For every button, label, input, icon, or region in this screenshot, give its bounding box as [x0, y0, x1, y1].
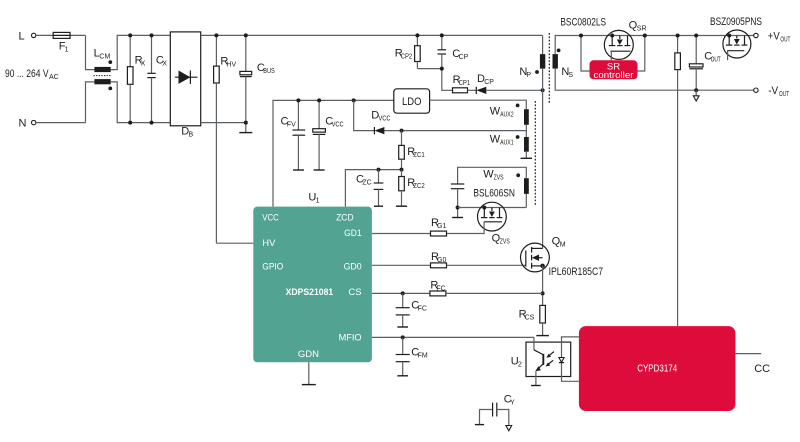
svg-text:M: M	[560, 242, 566, 249]
svg-text:CS: CS	[525, 315, 535, 322]
node L input label	[19, 31, 25, 43]
IC U1 XDPS21081 box	[253, 207, 372, 363]
svg-text:ZC1: ZC1	[413, 152, 425, 159]
svg-text:GD1: GD1	[344, 228, 362, 239]
node dot DVCC branch	[352, 98, 356, 102]
svg-text:1: 1	[65, 46, 69, 53]
svg-text:N: N	[19, 118, 27, 130]
wire choke bottom right to bottom rail	[111, 82, 171, 123]
svg-text:FC: FC	[418, 305, 427, 312]
secondary top rail	[555, 36, 753, 55]
resistor RCS	[519, 305, 549, 335]
capacitor CX	[147, 35, 167, 122]
choke dot top	[108, 60, 112, 64]
bridge rectifier DB box	[170, 32, 200, 126]
wire L terminal to choke	[36, 35, 94, 69]
svg-text:L: L	[19, 31, 25, 43]
secondary bottom rail -Vout	[555, 69, 753, 91]
ZVS loop wire bottom	[458, 194, 527, 208]
optocoupler U2 box	[511, 342, 571, 376]
resistor RZC2	[396, 170, 425, 207]
svg-text:ZC: ZC	[362, 179, 371, 186]
label BSZ0905PNS	[710, 16, 762, 28]
svg-text:W: W	[490, 106, 501, 118]
opto LED	[559, 342, 564, 376]
choke LCM label	[94, 48, 111, 61]
svg-text:ZC2: ZC2	[413, 183, 425, 190]
svg-text:VCC: VCC	[379, 116, 391, 123]
node dot CCP top	[440, 33, 444, 37]
svg-text:CM: CM	[99, 54, 110, 61]
svg-text:SR: SR	[637, 26, 647, 33]
svg-text:90 ... 264 V: 90 ... 264 V	[5, 68, 49, 80]
capacitor CFM	[396, 335, 428, 375]
ground bar primary bus	[239, 132, 252, 134]
svg-text:VCC: VCC	[332, 121, 344, 128]
node dot RHV top	[214, 33, 218, 37]
node dot CBUS bottom	[244, 121, 248, 125]
choke core dashed	[94, 75, 112, 77]
wire clamp lower node	[417, 69, 452, 91]
wire LDO to WAUX2	[430, 100, 527, 109]
svg-text:OUT: OUT	[780, 36, 790, 43]
node dot rail RX bottom	[128, 121, 132, 125]
diode DVCC	[354, 100, 527, 134]
BSZ gate stub	[727, 51, 729, 61]
label BSC0802LS	[560, 17, 606, 29]
opto LED wires to CYPD	[562, 337, 579, 381]
transistor QM	[521, 236, 604, 278]
choke LCM top winding	[94, 67, 110, 72]
aux winding WAUX2	[490, 106, 529, 125]
node dot RZC2 top	[400, 168, 404, 172]
WAUX2 polarity dot	[516, 104, 520, 108]
svg-text:B: B	[189, 131, 194, 138]
wire N terminal to choke	[36, 82, 94, 123]
svg-text:1: 1	[316, 198, 320, 205]
svg-text:VCC: VCC	[262, 212, 279, 223]
node dot rail CX bottom	[150, 121, 154, 125]
capacitor CY	[475, 394, 515, 431]
opto light arrows	[546, 352, 555, 367]
resistor RCP1	[453, 74, 477, 93]
label 90...264 VAC	[5, 68, 59, 81]
svg-text:BSC0802LS: BSC0802LS	[560, 17, 606, 29]
svg-text:GPIO: GPIO	[262, 262, 283, 273]
NP polarity dot	[535, 70, 539, 74]
svg-text:FV: FV	[287, 121, 296, 128]
svg-text:AUX1: AUX1	[500, 139, 514, 146]
resistor RHV	[214, 35, 237, 243]
svg-text:2: 2	[518, 362, 522, 369]
svg-text:XDPS21081: XDPS21081	[286, 287, 334, 298]
svg-text:FC: FC	[436, 285, 445, 292]
capacitor CZC	[356, 170, 383, 207]
svg-text:CYPD3174: CYPD3174	[637, 364, 677, 375]
node dot ZVS cap	[456, 206, 460, 210]
terminal -Vout	[754, 85, 790, 98]
opto phototransistor	[531, 337, 543, 385]
svg-text:MFIO: MFIO	[339, 333, 362, 344]
SR controller right wire	[638, 36, 645, 72]
node dot CBUS top	[244, 33, 248, 37]
svg-text:Y: Y	[510, 400, 515, 407]
svg-text:GDN: GDN	[298, 349, 319, 360]
svg-text:HV: HV	[226, 62, 236, 69]
SR controller box	[590, 60, 638, 81]
node dot clamp	[440, 67, 444, 71]
svg-text:FM: FM	[418, 353, 428, 360]
svg-text:G0: G0	[437, 257, 446, 264]
svg-text:ZVS: ZVS	[494, 175, 504, 182]
node dot load resistor top	[676, 34, 680, 38]
svg-text:ZVS: ZVS	[500, 238, 510, 245]
svg-text:S: S	[568, 72, 573, 79]
terminal N	[32, 120, 36, 124]
transformer secondary winding NS	[553, 54, 574, 79]
NS polarity dot	[557, 49, 561, 53]
node dot rail RX top	[128, 33, 132, 37]
WAUX1 bottom termination	[521, 152, 532, 159]
svg-text:OUT: OUT	[779, 91, 789, 98]
choke LCM bottom winding	[94, 79, 110, 84]
wire WAUX2 to WAUX1	[525, 125, 527, 137]
CYPD3174 box	[579, 326, 736, 411]
node dot RCP2 top	[415, 33, 419, 37]
node dot CVCC	[317, 98, 321, 102]
svg-text:CP: CP	[484, 79, 494, 86]
aux winding WAUX1	[490, 133, 529, 151]
resistor RZC1	[399, 131, 425, 170]
resistor RCP2	[395, 35, 421, 68]
svg-text:X: X	[141, 61, 146, 68]
node dot SR left	[579, 34, 583, 38]
label BSL606SN	[473, 188, 515, 200]
node dot SR right	[643, 34, 647, 38]
aux winding WZVS	[483, 169, 529, 194]
choke dot bottom	[108, 87, 112, 91]
svg-text:OUT: OUT	[711, 56, 721, 63]
resistor RG0	[372, 251, 526, 268]
svg-text:ZCD: ZCD	[336, 212, 354, 223]
wire primary NP bottom to QM drain	[542, 69, 544, 249]
ZVS cap ground	[452, 208, 463, 218]
bridge diode symbol	[175, 71, 198, 84]
wire ZCD node	[345, 170, 401, 207]
QZVS gate wire	[447, 222, 485, 234]
secondary ground triangle	[693, 90, 699, 101]
node dot CFV	[296, 98, 300, 102]
svg-text:LDO: LDO	[402, 96, 422, 108]
terminal +Vout	[754, 30, 791, 43]
CC pin wire	[735, 354, 770, 376]
capacitor CVCC	[313, 100, 344, 170]
capacitor CCP	[438, 35, 469, 68]
capacitor CFV	[281, 100, 306, 170]
transistor QSR	[604, 20, 646, 60]
svg-text:CS: CS	[348, 287, 361, 298]
svg-text:IPL60R185C7: IPL60R185C7	[549, 266, 604, 278]
wire bottom rail bridge to CBUS	[201, 122, 246, 124]
label DB	[181, 125, 193, 138]
node dot RZC1 top	[400, 129, 404, 133]
node dot rail CX top	[150, 33, 154, 37]
transformer primary winding NP	[519, 54, 545, 79]
svg-text:BSL606SN: BSL606SN	[473, 188, 515, 200]
terminal L	[32, 33, 36, 37]
resistor RFC	[372, 279, 543, 296]
svg-text:CP: CP	[459, 54, 469, 61]
svg-text:P: P	[526, 72, 531, 79]
WZVS polarity dot	[516, 173, 520, 177]
svg-text:GD0: GD0	[344, 262, 362, 273]
fuse F1	[53, 32, 70, 53]
svg-text:X: X	[162, 61, 167, 68]
wire choke top right to top rail	[111, 35, 171, 69]
svg-text:HV: HV	[262, 238, 276, 249]
node dot COUT bottom	[694, 88, 698, 92]
node N input label	[19, 118, 27, 130]
svg-text:+V: +V	[768, 30, 781, 42]
node dot CS	[541, 291, 545, 295]
node dot primary clamp	[541, 88, 545, 92]
capacitor CBUS	[240, 35, 275, 132]
svg-text:CP2: CP2	[401, 53, 413, 60]
dummy load resistor	[675, 36, 681, 327]
svg-text:G1: G1	[437, 223, 446, 230]
ZVS snubber capacitor	[451, 184, 464, 208]
transistor QZVS	[478, 202, 511, 245]
node dot CZC top	[377, 168, 381, 172]
wire HV pin	[216, 242, 253, 244]
WAUX1 polarity dot	[516, 135, 520, 139]
ZVS loop wire top	[458, 167, 527, 184]
capacitor COUT	[689, 36, 721, 91]
GDN ground stub	[302, 362, 316, 384]
LDO box	[394, 89, 430, 113]
svg-text:W: W	[490, 133, 501, 145]
transformer core dashed	[548, 33, 550, 104]
wire MFIO	[372, 336, 534, 338]
VCC rail wire	[273, 100, 394, 206]
diode DCP	[476, 73, 542, 94]
svg-text:BUS: BUS	[263, 68, 275, 75]
svg-text:controller: controller	[594, 70, 634, 81]
svg-text:W: W	[483, 169, 494, 181]
wire top rail bridge to transformer	[201, 35, 543, 54]
svg-text:AC: AC	[49, 74, 59, 81]
svg-text:AUX2: AUX2	[500, 112, 514, 119]
svg-text:BSZ0905PNS: BSZ0905PNS	[710, 16, 762, 28]
resistor RG1	[372, 217, 447, 236]
node dot COUT top	[694, 34, 698, 38]
svg-text:CC: CC	[754, 363, 770, 375]
capacitor CFC	[396, 291, 427, 327]
aux core dashed	[534, 101, 536, 205]
svg-text:-V: -V	[768, 85, 779, 97]
QSR gate wire to SR controller	[610, 51, 612, 60]
transistor BSZ0905PNS load switch	[723, 30, 751, 58]
label U1	[308, 192, 319, 205]
svg-text:CP1: CP1	[459, 80, 471, 87]
wire QM source to CS node	[542, 266, 544, 306]
SR controller left wire	[581, 36, 590, 72]
resistor RX	[127, 35, 145, 122]
